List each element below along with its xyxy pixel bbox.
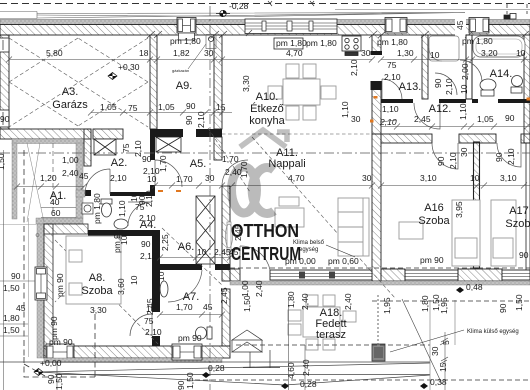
svg-text:2,40: 2,40 — [301, 359, 311, 376]
svg-text:30: 30 — [430, 346, 440, 356]
door A6 to A7 — [168, 270, 202, 302]
dimension chain A6 row — [157, 255, 233, 261]
svg-text:1,00: 1,00 — [240, 280, 250, 297]
door A15-A12 — [414, 103, 440, 129]
svg-text:A8.: A8. — [89, 272, 106, 284]
svg-text:Szoba: Szoba — [505, 218, 530, 230]
svg-text:1,95: 1,95 — [439, 297, 449, 314]
door arc inside A15 — [435, 73, 457, 95]
insulation stipple below band — [230, 281, 530, 285]
svg-text:10: 10 — [197, 247, 207, 257]
door A5 — [155, 160, 182, 187]
closet line A1 — [52, 143, 54, 216]
furniture: terrace table — [288, 295, 356, 350]
svg-text:2,10: 2,10 — [144, 190, 154, 207]
furniture: sofa living — [275, 197, 304, 227]
svg-text:30: 30 — [351, 114, 361, 124]
A11 west wall — [222, 186, 230, 281]
A8 roof diagonal dashed — [55, 240, 158, 344]
svg-text:1,80: 1,80 — [3, 313, 20, 323]
svg-text:4,70: 4,70 — [288, 173, 305, 183]
bottom site lines — [0, 362, 430, 385]
north exterior wall: insulation stipple band — [0, 20, 530, 25]
svg-text:90: 90 — [184, 115, 194, 125]
garage south wall insulation gray — [12, 139, 84, 144]
A8 west wall hatch — [44, 224, 53, 358]
svg-text:3,10: 3,10 — [500, 173, 517, 183]
svg-text:90: 90 — [519, 250, 529, 260]
dims A10/A12 — [340, 101, 515, 127]
A8 south wall hatch — [44, 346, 230, 358]
A8 north-west hatch block — [44, 224, 88, 234]
svg-text:1,05: 1,05 — [477, 114, 494, 124]
A7 east wall — [222, 289, 230, 346]
svg-text:90: 90 — [498, 303, 508, 313]
svg-text:45: 45 — [455, 20, 465, 30]
A6 roof diagonal dashed — [162, 228, 222, 285]
A5 east wall stub — [214, 137, 222, 160]
svg-text:1,10: 1,10 — [382, 104, 399, 114]
svg-text:2,10: 2,10 — [139, 213, 156, 223]
wall segment A2 north — [93, 129, 123, 139]
gable symbol south of A7 — [232, 330, 280, 368]
svg-text:pm 1,80: pm 1,80 — [306, 38, 337, 48]
svg-text:pm 0,60: pm 0,60 — [328, 256, 359, 266]
dims A4/A6 upper — [129, 190, 170, 285]
svg-text:10: 10 — [156, 271, 166, 281]
A1 west gray garden wall — [12, 143, 17, 219]
A10/A13 divider wall — [372, 35, 381, 134]
svg-text:+0,30: +0,30 — [118, 62, 140, 72]
svg-text:1,10: 1,10 — [117, 200, 127, 217]
window in west garage wall upper — [0, 38, 9, 52]
svg-text:2,10: 2,10 — [349, 59, 359, 76]
west dimension line — [0, 150, 35, 390]
svg-text:3,20: 3,20 — [481, 48, 498, 58]
dimension chain A2 row — [88, 110, 232, 116]
svg-text:A10.: A10. — [256, 91, 279, 103]
svg-text:egység: egység — [299, 247, 318, 253]
svg-text:Garázs: Garázs — [52, 99, 88, 111]
watermark roof icon — [240, 130, 287, 147]
svg-text:90: 90 — [176, 380, 186, 390]
svg-text:pm 90: pm 90 — [112, 229, 122, 253]
svg-text:A9.: A9. — [176, 80, 193, 92]
svg-text:90: 90 — [141, 239, 151, 249]
svg-text:1,50: 1,50 — [3, 325, 20, 335]
svg-text:2,10: 2,10 — [444, 78, 454, 95]
window south A8 — [46, 344, 74, 360]
svg-text:1,50: 1,50 — [242, 295, 252, 312]
svg-text:10: 10 — [470, 173, 480, 183]
svg-text:3,95: 3,95 — [454, 201, 464, 218]
terrace dashed edge — [236, 344, 430, 346]
svg-text:90: 90 — [436, 156, 446, 166]
east exterior wall upper — [524, 35, 530, 143]
orange reference marks — [158, 96, 530, 192]
svg-text:1,70: 1,70 — [158, 155, 168, 172]
svg-text:15: 15 — [438, 362, 448, 372]
svg-text:1,82: 1,82 — [173, 48, 190, 58]
door gap north wall (45) — [455, 18, 466, 36]
basin A4 oval — [114, 219, 128, 229]
dashed horizontal right lower — [372, 300, 530, 302]
svg-text:18: 18 — [139, 48, 149, 58]
svg-text:A3.: A3. — [62, 86, 79, 98]
svg-text:1,50: 1,50 — [514, 294, 524, 311]
svg-text:Szoba: Szoba — [418, 215, 450, 227]
section line vertical dash-dot — [209, 6, 211, 390]
dims terrace / bottom — [46, 250, 529, 390]
svg-text:pm 1,80: pm 1,80 — [170, 36, 201, 46]
svg-text:CENTRUM: CENTRUM — [231, 244, 301, 264]
dotted kitchen living divide — [222, 133, 372, 135]
gas boiler circle + label — [206, 35, 216, 49]
living room roof diagonal dashed — [252, 137, 370, 270]
svg-text:1,70: 1,70 — [222, 154, 239, 164]
svg-text:1,50: 1,50 — [185, 372, 195, 389]
dims A13/A14 — [384, 60, 470, 95]
svg-text:90: 90 — [11, 271, 21, 281]
svg-text:2,10: 2,10 — [448, 152, 458, 169]
cooktop — [342, 36, 361, 56]
A11/A16 divider — [372, 134, 381, 281]
svg-text:0,48: 0,48 — [466, 282, 483, 292]
svg-text:pm 90: pm 90 — [420, 255, 444, 265]
A9 east wall — [214, 35, 222, 129]
tick 2 on boundary — [310, 1, 314, 6]
svg-text:2,45: 2,45 — [145, 298, 155, 315]
bathtub A14 — [473, 36, 525, 57]
dimension chain A5 row — [152, 183, 375, 189]
svg-text:1,50: 1,50 — [3, 283, 20, 293]
svg-text:-0,28: -0,28 — [229, 1, 249, 11]
svg-text:4,70: 4,70 — [286, 48, 303, 58]
shower A15 — [429, 36, 459, 61]
dimension chain A7 row — [157, 312, 225, 318]
furniture: bed A16 — [399, 200, 480, 266]
window west A8 — [35, 267, 47, 300]
svg-text:10: 10 — [430, 50, 440, 60]
svg-text:3,10: 3,10 — [420, 173, 437, 183]
A15/A14 divider wall — [466, 35, 472, 99]
svg-text:A12.: A12. — [429, 103, 452, 115]
svg-text:15: 15 — [216, 102, 226, 112]
section line horizontal dash-dot — [0, 152, 530, 154]
svg-text:3,60: 3,60 — [116, 278, 126, 295]
dashed verticals top right — [506, 4, 508, 14]
window W1 (A9) in north wall — [177, 18, 196, 41]
svg-text:2,40: 2,40 — [300, 293, 310, 310]
svg-text:45: 45 — [79, 171, 89, 181]
level markers bottom — [40, 282, 483, 389]
door arcs — [85, 60, 521, 336]
garage south wall hatch — [0, 129, 91, 139]
washing machine A4 — [82, 203, 93, 214]
radiator A11 — [227, 222, 231, 250]
A8 west gray insulation — [37, 224, 44, 358]
door A4 — [128, 202, 152, 226]
svg-text:30: 30 — [362, 173, 372, 183]
furniture: dining table kitchen — [268, 64, 336, 120]
svg-text:30: 30 — [361, 48, 371, 58]
svg-text:30: 30 — [204, 48, 214, 58]
svg-text:pm 90: pm 90 — [178, 333, 202, 343]
svg-text:A5.: A5. — [190, 158, 207, 170]
dimension chain A12 row — [381, 124, 530, 130]
A5 west wall — [150, 137, 155, 160]
porch edge thin line — [28, 218, 30, 357]
svg-text:1,20: 1,20 — [40, 173, 57, 183]
svg-text:A2.: A2. — [111, 157, 128, 169]
toilet A4 — [101, 199, 112, 217]
bidet A14 — [511, 76, 523, 94]
svg-text:Étkező: Étkező — [250, 102, 284, 115]
dashed line above band — [230, 267, 530, 269]
svg-text:2,10: 2,10 — [196, 111, 206, 128]
A5 roof diagonal dashed — [208, 128, 250, 192]
A2/A4 divider wall — [110, 192, 152, 196]
svg-text:terasz: terasz — [316, 329, 346, 341]
svg-text:2,25: 2,25 — [160, 234, 170, 251]
door A5 to A11 — [222, 160, 248, 186]
boxed pm 1,80 — [274, 38, 303, 49]
door A12-A17 — [497, 143, 521, 167]
svg-text:0,28: 0,28 — [208, 363, 225, 373]
svg-text:90: 90 — [142, 154, 152, 164]
dimension verticals bottom — [288, 300, 290, 390]
svg-text:5,80: 5,80 — [46, 48, 63, 58]
shaft X tall in A6 — [196, 196, 215, 264]
svg-text:2,10: 2,10 — [145, 327, 162, 337]
level marker +0,00 — [34, 369, 43, 376]
svg-text:75: 75 — [144, 316, 154, 326]
svg-text:1,05: 1,05 — [100, 102, 117, 112]
A13/A14 south wall — [381, 99, 530, 103]
north exterior wall: masonry hatch band — [0, 25, 530, 36]
A17 window — [502, 270, 530, 280]
svg-text:90: 90 — [433, 78, 443, 88]
elevation marker -0,28 top — [216, 1, 249, 17]
A8 east wall — [152, 236, 160, 312]
svg-text:1,50: 1,50 — [0, 153, 6, 170]
svg-text:konyha: konyha — [249, 115, 285, 127]
svg-text:1,10: 1,10 — [458, 103, 468, 120]
A16 window — [405, 270, 458, 280]
plot boundary dashed line top — [0, 3, 530, 5]
svg-text:+0,00: +0,00 — [40, 358, 62, 368]
dims A6/A7 — [144, 247, 252, 343]
A1 south gray wall — [36, 218, 83, 224]
svg-text:1,00: 1,00 — [62, 155, 79, 165]
A4/A8 divider wall — [88, 230, 160, 236]
dims A16/A17 row — [420, 147, 517, 218]
svg-text:2,40: 2,40 — [62, 168, 79, 178]
A6/A7 divider — [160, 264, 202, 270]
svg-text:A16: A16 — [424, 202, 444, 214]
terrace door from A11 — [240, 246, 270, 270]
dashed plot line west — [24, 150, 95, 377]
chimney shaft X-braced — [94, 139, 116, 155]
svg-text:2,10: 2,10 — [110, 173, 127, 183]
svg-text:75: 75 — [121, 143, 131, 153]
dims A8 / west — [3, 229, 126, 347]
svg-text:10: 10 — [129, 275, 139, 285]
svg-text:45: 45 — [16, 303, 26, 313]
watermark (on top, multiply) — [231, 130, 301, 264]
garage roof dashed X — [9, 38, 148, 127]
door A12-A16 — [432, 143, 458, 169]
svg-text:pm 90: pm 90 — [49, 337, 73, 347]
svg-text:90: 90 — [505, 113, 515, 123]
garage east wall lower / A2 west — [84, 129, 91, 166]
svg-text:2,10: 2,10 — [506, 148, 516, 165]
level marker +0,30 — [108, 73, 117, 80]
window W4 (A14) in north wall — [469, 18, 489, 34]
band junction ticks — [147, 31, 529, 38]
svg-text:1,30: 1,30 — [397, 48, 414, 58]
svg-text:1,70: 1,70 — [176, 174, 193, 184]
toilet A14 — [480, 79, 496, 96]
svg-text:2,45: 2,45 — [219, 287, 229, 304]
svg-text:2,10: 2,10 — [384, 72, 401, 82]
south window wall band — [230, 268, 530, 285]
svg-text:30: 30 — [205, 173, 215, 183]
svg-text:1,95: 1,95 — [382, 297, 392, 314]
window in west garage wall — [0, 110, 9, 127]
A9 south wall segments — [150, 129, 183, 137]
svg-text:2,40: 2,40 — [343, 293, 353, 310]
toilet A7 — [196, 327, 213, 339]
svg-text:4,60: 4,60 — [286, 362, 296, 379]
svg-text:Szoba: Szoba — [81, 285, 113, 297]
svg-text:45: 45 — [203, 302, 213, 312]
basin A7 — [160, 281, 168, 297]
tick 1 on boundary — [268, 1, 272, 6]
dims A2/A9 row — [100, 101, 226, 113]
svg-text:60: 60 — [51, 208, 61, 218]
svg-text:3,30: 3,30 — [90, 305, 107, 315]
svg-text:pm 1,80: pm 1,80 — [462, 36, 493, 46]
svg-text:75: 75 — [135, 202, 145, 212]
svg-text:1,05: 1,05 — [158, 102, 175, 112]
svg-text:0,28: 0,28 — [300, 379, 317, 389]
svg-text:A14.: A14. — [490, 68, 513, 80]
watermark O letter — [232, 167, 257, 213]
svg-text:Klima külső egység: Klima külső egység — [467, 329, 519, 335]
level marker diamonds — [202, 372, 210, 378]
svg-text:75: 75 — [387, 60, 397, 70]
svg-text:1,80: 1,80 — [286, 291, 296, 308]
svg-text:3,30: 3,30 — [241, 75, 251, 92]
svg-text:2,45: 2,45 — [414, 114, 431, 124]
A8 south insulation — [44, 358, 222, 363]
symbol small box top right — [504, 14, 516, 20]
svg-text:A17: A17 — [509, 205, 529, 217]
dimension texts top rows — [46, 36, 526, 72]
furniture: bed A8 — [66, 236, 121, 304]
A1 east gray wall — [76, 143, 83, 218]
svg-text:pm 1,80: pm 1,80 — [377, 37, 408, 47]
A13/A15 divider wall — [422, 35, 428, 99]
door A14 — [460, 60, 482, 82]
window W2 (kitchen) in north wall — [245, 19, 337, 34]
sliding door band A11 — [270, 270, 372, 280]
furniture: bed A17 — [491, 200, 516, 266]
west wall of garage — [0, 35, 9, 129]
east wall A17 thin — [526, 143, 530, 270]
wall hatch segments — [458, 269, 502, 281]
svg-text:2,40: 2,40 — [254, 280, 264, 297]
svg-text:90: 90 — [0, 114, 10, 124]
dims A11 — [205, 173, 372, 297]
dashed site line bottom — [195, 379, 530, 381]
svg-text:10: 10 — [459, 84, 469, 94]
svg-text:pm 1,80: pm 1,80 — [92, 193, 102, 224]
svg-text:2,10: 2,10 — [140, 251, 157, 261]
dimension chain A1 row — [14, 184, 87, 218]
svg-text:OTTHON: OTTHON — [231, 221, 299, 241]
dimension chain A16 row — [378, 183, 530, 189]
door A8 — [130, 314, 152, 336]
dims A2/A5 — [0, 114, 249, 184]
watermark C letter — [252, 168, 274, 214]
door A13-A12 — [382, 79, 402, 99]
svg-text:pm 1,80: pm 1,80 — [276, 38, 307, 48]
A12 south wall with hatch — [381, 134, 432, 143]
dimension chain line garage row — [6, 57, 530, 63]
klima outdoor unit — [372, 295, 385, 361]
klima labels — [293, 240, 519, 335]
A9 west wall — [150, 35, 157, 129]
svg-text:75: 75 — [128, 103, 138, 113]
svg-text:40: 40 — [50, 197, 60, 207]
svg-text:2,00: 2,00 — [460, 63, 470, 80]
window W3 (A13) in north wall — [385, 18, 407, 34]
svg-text:A13.: A13. — [399, 81, 422, 93]
wall stub left of terrace door — [230, 269, 240, 281]
svg-text:gázkazán: gázkazán — [172, 68, 189, 73]
svg-text:1,80: 1,80 — [420, 295, 430, 312]
driveway wedge lines — [0, 10, 530, 19]
svg-text:pm 90: pm 90 — [55, 273, 65, 297]
svg-text:0,38: 0,38 — [430, 377, 447, 387]
svg-text:A6.: A6. — [178, 241, 195, 253]
svg-text:10: 10 — [516, 48, 526, 58]
svg-text:1,10: 1,10 — [340, 101, 350, 118]
dims A1/A4 — [40, 155, 129, 245]
svg-text:90: 90 — [186, 101, 196, 111]
A16/A17 divider wall — [474, 142, 480, 268]
svg-text:10: 10 — [147, 174, 157, 184]
small circle symbol — [36, 234, 39, 237]
svg-text:1,50: 1,50 — [54, 373, 64, 390]
window south A7 — [172, 344, 202, 360]
shaft X in A5 corner — [156, 137, 181, 152]
furniture: wardrobe living — [338, 198, 369, 256]
svg-text:1,70: 1,70 — [176, 302, 193, 312]
svg-text:30: 30 — [459, 147, 469, 157]
door A2 from A1 — [85, 169, 110, 194]
svg-text:90: 90 — [494, 152, 504, 162]
